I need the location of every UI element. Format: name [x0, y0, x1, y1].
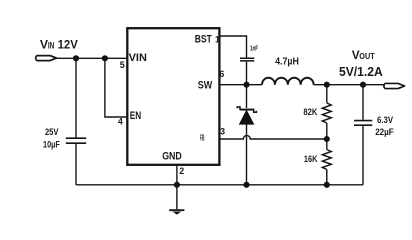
- svg-text:BST: BST: [195, 33, 212, 45]
- ground stub: [176, 185, 178, 210]
- svg-text:82K: 82K: [303, 107, 317, 117]
- svg-text:2: 2: [179, 166, 184, 176]
- svg-text:4: 4: [118, 117, 123, 127]
- ground symbol: [169, 209, 184, 211]
- svg-text:1nF: 1nF: [250, 44, 258, 53]
- svg-text:EN: EN: [130, 110, 141, 122]
- svg-text:6: 6: [219, 69, 224, 79]
- wire input cap branch lower: [75, 144, 77, 185]
- junction dot SW node: [243, 82, 249, 88]
- wire inductor to output terminal: [314, 84, 385, 86]
- wire FB pin to divider with hop over diode branch: [220, 135, 327, 139]
- junction dot output cap tap: [360, 82, 366, 88]
- svg-text:SW: SW: [198, 79, 213, 91]
- wire SW pin to inductor: [220, 84, 262, 86]
- resistor 82K: [322, 103, 331, 123]
- capacitor input 25V 10uF: [66, 138, 86, 143]
- svg-text:16K: 16K: [304, 154, 318, 164]
- svg-text:6.3V: 6.3V: [377, 114, 394, 125]
- input terminal VIN: [36, 56, 57, 61]
- wire EN branch: [105, 58, 127, 117]
- svg-text:22µF: 22µF: [375, 127, 394, 138]
- schottky diode cathode bar: [237, 107, 256, 112]
- svg-text:GND: GND: [162, 151, 182, 163]
- svg-text:3: 3: [220, 126, 225, 136]
- junction dot EN tap: [102, 55, 108, 61]
- wire SW node to diode cathode: [246, 85, 248, 108]
- wire output cap branch lower: [362, 126, 364, 185]
- wire BST pin to bootstrap cap: [220, 36, 247, 58]
- svg-text:5: 5: [120, 60, 125, 70]
- svg-text:1: 1: [215, 34, 220, 44]
- svg-text:4.7µH: 4.7µH: [275, 56, 299, 67]
- svg-text:12V: 12V: [58, 37, 79, 51]
- wire bootstrap cap to SW node: [246, 62, 248, 85]
- capacitor output 6.3V 22uF: [354, 121, 372, 126]
- junction dot diode at ground rail: [243, 182, 249, 188]
- svg-text:10µF: 10µF: [43, 140, 60, 150]
- schottky diode body (triangle up): [239, 110, 253, 124]
- wire 82K to FB node: [326, 123, 328, 139]
- inductor 4.7uH: [262, 78, 314, 85]
- junction dot 16K at ground rail: [324, 182, 330, 188]
- wire output cap branch upper: [362, 85, 364, 120]
- wire GND pin to ground rail: [176, 166, 178, 185]
- output terminal VOUT: [384, 83, 405, 88]
- junction dot GND at ground rail: [174, 182, 180, 188]
- wire FB node to 16K: [326, 139, 328, 150]
- junction dot FB node: [324, 136, 330, 142]
- svg-text:VIN: VIN: [129, 52, 147, 64]
- wire divider top lead: [326, 85, 328, 103]
- svg-text:OUT: OUT: [359, 51, 375, 61]
- svg-text:IN: IN: [48, 40, 54, 50]
- junction dot feedback divider top: [324, 82, 330, 88]
- svg-text:5V/1.2A: 5V/1.2A: [339, 64, 383, 79]
- wire 16K to ground rail: [326, 170, 328, 185]
- wire input cap branch upper: [75, 58, 77, 137]
- svg-text:25V: 25V: [45, 127, 59, 137]
- IC U1 box: [127, 28, 219, 165]
- capacitor bootstrap: [240, 58, 254, 61]
- wire diode anode to ground rail: [246, 124, 248, 185]
- junction dot input node A: [73, 55, 79, 61]
- svg-text:FB: FB: [200, 134, 205, 143]
- wire ground rail: [76, 184, 363, 186]
- wire input to VIN pin: [57, 57, 128, 59]
- resistor 16K: [322, 150, 331, 170]
